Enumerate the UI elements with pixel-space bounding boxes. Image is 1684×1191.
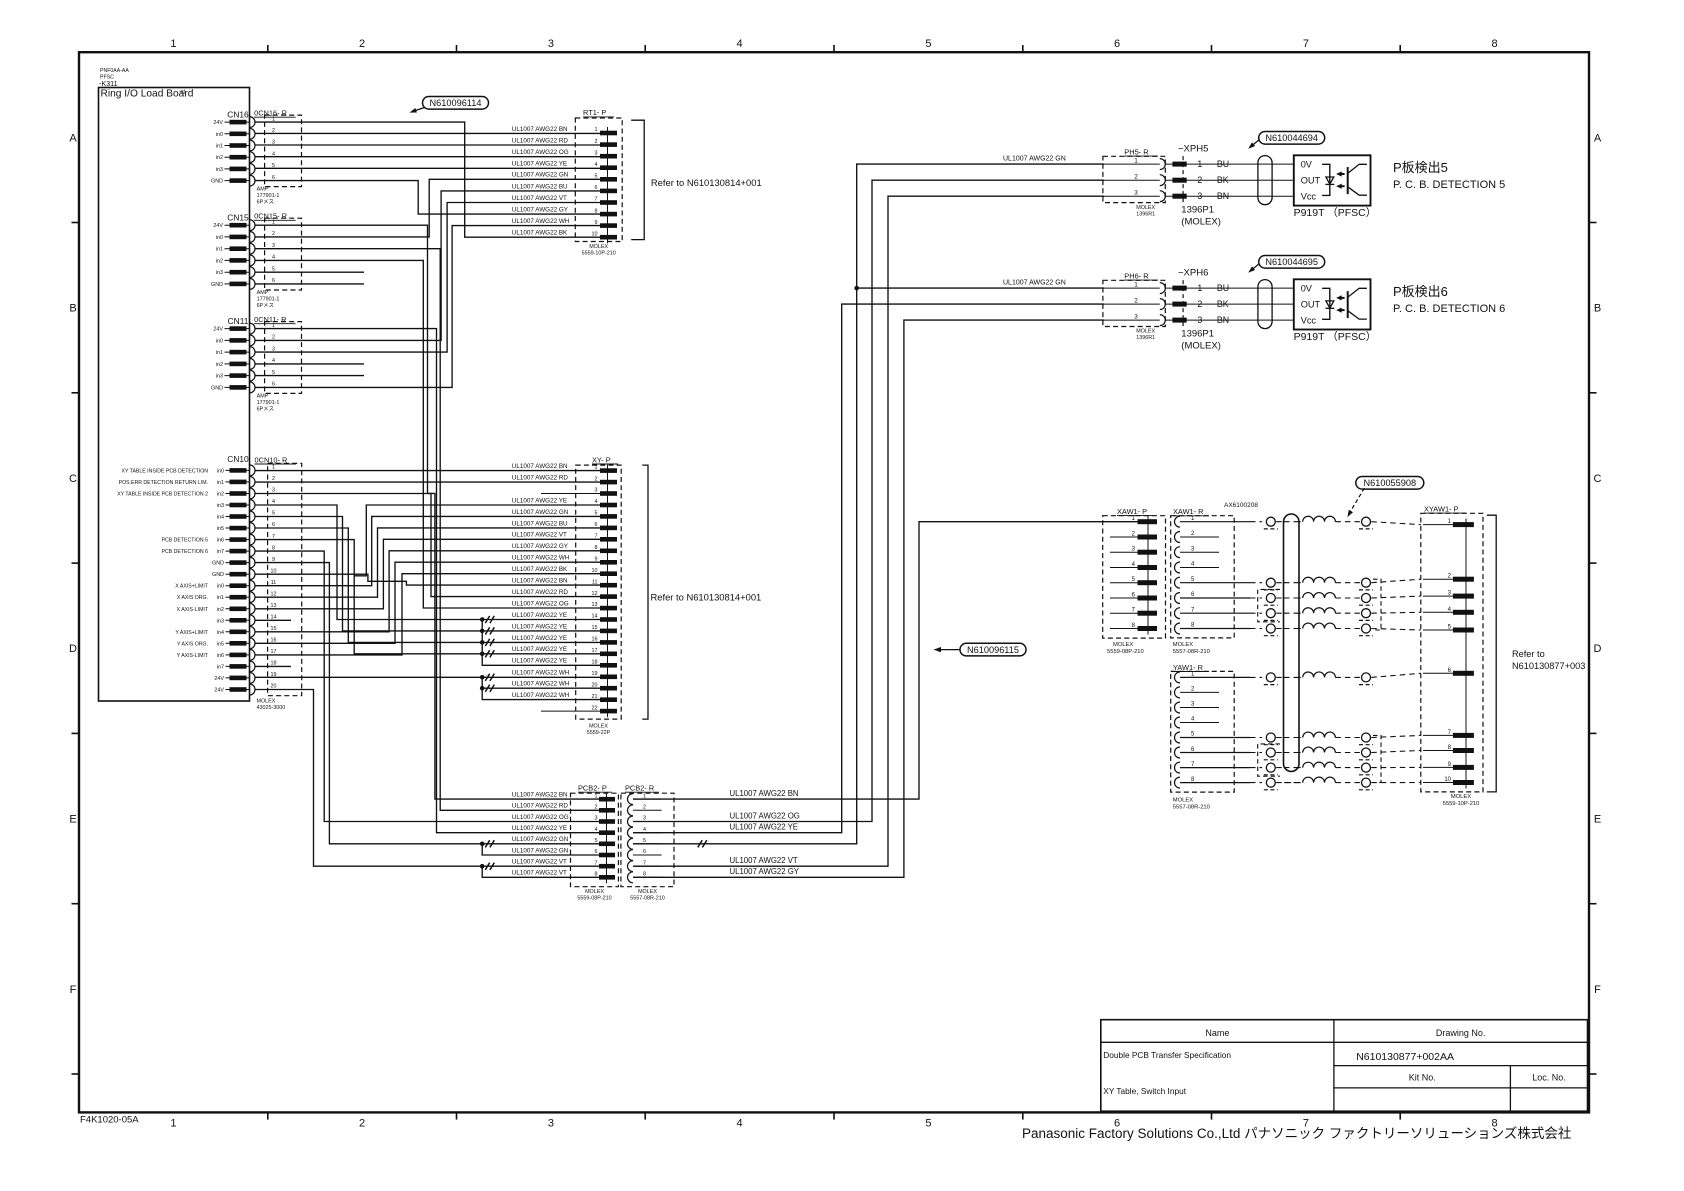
svg-text:A: A	[69, 132, 77, 144]
svg-text:2: 2	[1197, 175, 1202, 185]
svg-text:0CN15- R: 0CN15- R	[254, 212, 287, 221]
wire PCB2-R pin5 to PH5 pin1 24V	[633, 164, 1104, 844]
svg-text:8: 8	[272, 545, 275, 551]
svg-text:6Pメス: 6Pメス	[257, 405, 274, 412]
connector XAW1- R	[1171, 507, 1235, 655]
svg-text:in1: in1	[216, 350, 223, 356]
svg-text:5559-08P-210: 5559-08P-210	[577, 896, 611, 902]
wire CN15-1 to PCB2-P pin1	[255, 225, 599, 799]
svg-text:177901-1: 177901-1	[257, 400, 280, 406]
label P.C.B. DETECTION 5	[1393, 160, 1505, 191]
svg-text:XY Table, Switch Input: XY Table, Switch Input	[1103, 1086, 1186, 1096]
svg-text:in0: in0	[216, 235, 223, 241]
svg-text:MOLEX: MOLEX	[257, 699, 276, 705]
svg-text:8: 8	[595, 208, 598, 214]
slash XY-P pin19	[485, 674, 494, 681]
svg-text:MOLEX: MOLEX	[585, 889, 604, 895]
svg-text:P919T （PFSC）: P919T （PFSC）	[1294, 207, 1377, 219]
svg-text:15: 15	[271, 626, 277, 632]
junction dot XY-P pin17	[480, 652, 485, 657]
svg-text:UL1007 AWG22 BN: UL1007 AWG22 BN	[730, 789, 799, 798]
svg-text:5559-22P: 5559-22P	[587, 730, 611, 736]
wire CN10-20 to PCB2-P pin7	[255, 690, 599, 867]
svg-text:UL1007 AWG22 WH: UL1007 AWG22 WH	[512, 218, 570, 225]
svg-text:PH5- R: PH5- R	[1124, 148, 1148, 157]
svg-text:2: 2	[595, 805, 598, 811]
junction dot XY-P pin15	[480, 629, 485, 634]
svg-text:P板検出5: P板検出5	[1393, 160, 1448, 175]
svg-text:UL1007 AWG22 GN: UL1007 AWG22 GN	[512, 172, 569, 179]
label AX6100208	[1224, 502, 1258, 509]
svg-text:7: 7	[272, 534, 275, 540]
svg-text:9: 9	[595, 220, 598, 226]
svg-text:8: 8	[643, 872, 646, 878]
svg-text:in7: in7	[217, 664, 224, 670]
svg-text:-K311: -K311	[99, 79, 118, 88]
twisted-pair wire row 3 to XYAW1-P pin 3	[1180, 593, 1421, 606]
svg-text:6: 6	[1114, 38, 1120, 50]
svg-text:BK: BK	[1217, 175, 1229, 185]
svg-text:P. C. B. DETECTION 5: P. C. B. DETECTION 5	[1393, 179, 1505, 191]
svg-text:1: 1	[595, 465, 598, 471]
balloon N610055908	[1347, 477, 1423, 518]
svg-text:UL1007 AWG22 GY: UL1007 AWG22 GY	[512, 543, 569, 550]
svg-text:UL1007 AWG22 BK: UL1007 AWG22 BK	[512, 230, 568, 237]
svg-text:in0: in0	[217, 584, 224, 590]
svg-text:2: 2	[643, 805, 646, 811]
stub CN11-4	[255, 363, 364, 365]
junction dot PCB2-P pin7	[480, 864, 485, 869]
svg-text:1: 1	[1134, 281, 1138, 288]
svg-text:Refer to: Refer to	[1512, 649, 1545, 659]
svg-text:3: 3	[548, 1118, 554, 1130]
svg-text:UL1007 AWG22 VT: UL1007 AWG22 VT	[512, 532, 567, 539]
wire CN10-7 to XY-P pin17	[255, 540, 600, 654]
svg-text:in0: in0	[216, 338, 223, 344]
svg-text:UL1007 AWG22 RD: UL1007 AWG22 RD	[512, 589, 569, 596]
svg-text:UL1007 AWG22 VT: UL1007 AWG22 VT	[512, 859, 567, 866]
svg-text:17: 17	[271, 649, 277, 655]
slash XY-P pin15	[485, 627, 494, 634]
connector PH5-R	[1103, 148, 1165, 218]
connector PCB2-R	[621, 784, 674, 902]
svg-text:8: 8	[595, 872, 598, 878]
connector 0CN10- R	[250, 455, 302, 711]
svg-text:in2: in2	[217, 607, 224, 613]
wire CN16-4 to RT1-P pin3	[255, 156, 600, 158]
svg-text:C: C	[1594, 473, 1602, 485]
svg-text:UL1007 AWG22 VT: UL1007 AWG22 VT	[512, 195, 567, 202]
svg-text:GND: GND	[211, 282, 223, 288]
wire CN10-5 to XY-P pin15	[255, 517, 600, 631]
stub XY-P pin 22	[541, 710, 600, 712]
junction dot XY-P pin14	[480, 617, 485, 622]
connector XAW1-P	[1103, 507, 1166, 655]
svg-text:UL1007 AWG22 YE: UL1007 AWG22 YE	[512, 623, 567, 630]
svg-text:UL1007 AWG22 YE: UL1007 AWG22 YE	[512, 497, 567, 504]
svg-text:−XPH6: −XPH6	[1178, 268, 1208, 279]
connector CN15 board pins	[211, 213, 249, 288]
svg-text:177901-1: 177901-1	[257, 296, 280, 302]
wire labels XY-P	[512, 463, 570, 699]
svg-text:UL1007 AWG22 RD: UL1007 AWG22 RD	[512, 137, 569, 144]
svg-text:Y AXIS+LIMIT: Y AXIS+LIMIT	[175, 630, 208, 636]
wire CN11-6 to RT1-P pin9	[255, 226, 600, 388]
svg-text:16: 16	[592, 637, 598, 643]
svg-text:2: 2	[1197, 299, 1202, 309]
wire CN10-10 to XY-P pin11	[255, 574, 600, 585]
svg-text:6Pメス: 6Pメス	[257, 199, 274, 206]
wire CN10-11 to XY-P pin5	[255, 516, 600, 585]
svg-text:7: 7	[1303, 38, 1309, 50]
stub XY-P pin 3	[541, 493, 600, 495]
svg-text:4: 4	[643, 827, 646, 833]
wire CN10-8 to PCB2-P pin3	[255, 551, 599, 821]
slash XY-P pin17	[485, 650, 494, 657]
svg-text:Y AXIS ORG.: Y AXIS ORG.	[177, 641, 208, 647]
svg-text:5557-08R-210: 5557-08R-210	[1173, 805, 1210, 811]
wire CN11-2 to RT1-P pin6	[255, 191, 600, 341]
svg-text:Loc. No.: Loc. No.	[1532, 1073, 1566, 1083]
svg-text:X AXIS+LIMIT: X AXIS+LIMIT	[175, 584, 209, 590]
svg-text:in2: in2	[217, 492, 224, 498]
svg-text:XAW1- R: XAW1- R	[1173, 507, 1204, 516]
connector PH6-R	[1103, 272, 1165, 342]
connector CN11 board pins	[211, 316, 249, 391]
svg-text:−XPH5: −XPH5	[1178, 144, 1208, 155]
svg-text:P. C. B. DETECTION 6: P. C. B. DETECTION 6	[1393, 303, 1505, 315]
svg-text:UL1007 AWG22 YE: UL1007 AWG22 YE	[512, 161, 567, 168]
wire CN10-1 to XY-P pin1	[255, 470, 600, 472]
wire CN10-6 to XY-P pin16	[255, 528, 600, 642]
svg-text:10: 10	[1444, 777, 1451, 783]
jumper WH to XY-P pin21	[482, 677, 600, 699]
connector RT1-P	[575, 108, 622, 256]
svg-text:2: 2	[272, 476, 275, 482]
svg-text:Drawing No.: Drawing No.	[1436, 1028, 1486, 1038]
svg-text:1: 1	[1134, 157, 1138, 164]
slash PCB2-P pin5	[485, 840, 494, 847]
svg-text:6: 6	[272, 175, 275, 181]
svg-text:2: 2	[595, 476, 598, 482]
svg-text:9: 9	[272, 557, 275, 563]
svg-text:UL1007 AWG22 VT: UL1007 AWG22 VT	[512, 870, 567, 877]
svg-text:13: 13	[271, 603, 277, 609]
svg-text:UL1007 AWG22 BN: UL1007 AWG22 BN	[512, 792, 568, 799]
cable bundle oval	[1284, 514, 1300, 772]
svg-text:4: 4	[737, 38, 743, 50]
svg-text:8: 8	[595, 545, 598, 551]
svg-text:Double PCB Transfer Specificat: Double PCB Transfer Specification	[1103, 1050, 1231, 1060]
svg-text:F: F	[70, 984, 77, 996]
svg-text:PCB2- P: PCB2- P	[578, 784, 607, 793]
svg-text:POS.ERR DETECTION RETURN LIM.: POS.ERR DETECTION RETURN LIM.	[119, 480, 208, 486]
svg-text:in4: in4	[217, 630, 224, 636]
svg-text:UL1007 AWG22 OG: UL1007 AWG22 OG	[512, 600, 569, 607]
svg-text:6Pメス: 6Pメス	[257, 302, 274, 309]
svg-text:1: 1	[272, 323, 275, 329]
svg-text:4: 4	[595, 827, 598, 833]
svg-text:19: 19	[592, 671, 598, 677]
svg-text:4: 4	[737, 1118, 743, 1130]
balloon N610044694	[1248, 132, 1325, 149]
svg-text:5559-08P-210: 5559-08P-210	[1107, 649, 1144, 655]
svg-text:UL1007 AWG22 BN: UL1007 AWG22 BN	[512, 578, 568, 585]
svg-text:in3: in3	[216, 270, 223, 276]
svg-text:2: 2	[1134, 173, 1138, 180]
wire PCB2-R pin7 to PH5 pin3	[633, 196, 1104, 866]
title block	[1101, 1020, 1588, 1111]
svg-text:in5: in5	[217, 641, 224, 647]
wire label PH5 GN	[1003, 156, 1066, 163]
svg-text:UL1007 AWG22 OG: UL1007 AWG22 OG	[512, 814, 569, 821]
svg-text:4: 4	[272, 255, 275, 261]
wire CN10-17 to XY-P pin10	[255, 574, 600, 655]
svg-text:3: 3	[272, 243, 275, 249]
svg-text:24V: 24V	[213, 120, 223, 126]
svg-text:UL1007 AWG22 OG: UL1007 AWG22 OG	[512, 149, 569, 156]
wire CN10-12 to XY-P pin6	[255, 528, 600, 597]
svg-text:D: D	[69, 643, 77, 655]
svg-text:BU: BU	[1217, 159, 1229, 169]
svg-text:5: 5	[272, 370, 275, 376]
connector XYAW1-P	[1421, 504, 1483, 807]
twisted-pair wire row 6 to XYAW1-P pin 6	[1180, 672, 1421, 685]
svg-text:UL1007 AWG22 YE: UL1007 AWG22 YE	[512, 612, 567, 619]
svg-text:OUT: OUT	[1301, 299, 1321, 309]
svg-text:in3: in3	[217, 618, 224, 624]
svg-text:3: 3	[1134, 189, 1138, 196]
stub CN15-5	[255, 271, 364, 273]
svg-text:0CN11- R: 0CN11- R	[254, 315, 286, 324]
svg-text:MOLEX: MOLEX	[1451, 794, 1471, 800]
svg-text:GND: GND	[211, 385, 223, 391]
wire CN16-2 to RT1-P pin1	[255, 132, 600, 134]
svg-text:GND: GND	[212, 572, 224, 578]
svg-text:AMP: AMP	[257, 187, 269, 193]
drawing number F4K1020-05A	[80, 1115, 139, 1126]
stub CN10-18	[255, 665, 291, 667]
svg-text:12: 12	[271, 591, 277, 597]
connector -XPH5	[1165, 144, 1294, 228]
wire CN16-5 to RT1-P pin4	[255, 167, 600, 169]
junction dot 24V net PH6	[854, 286, 859, 291]
svg-text:2: 2	[272, 335, 275, 341]
svg-text:X AXIS-LIMIT: X AXIS-LIMIT	[177, 607, 209, 613]
svg-text:in4: in4	[217, 515, 224, 521]
wire CN16-3 to RT1-P pin2	[255, 144, 600, 146]
svg-text:5559-10P-210: 5559-10P-210	[582, 251, 616, 257]
svg-text:24V: 24V	[213, 223, 223, 229]
svg-text:3: 3	[595, 816, 598, 822]
svg-text:14: 14	[271, 615, 277, 621]
svg-text:MOLEX: MOLEX	[589, 724, 608, 730]
svg-text:2: 2	[1134, 297, 1138, 304]
svg-text:Kit No.: Kit No.	[1409, 1073, 1436, 1083]
photo-interrupter U5 P919T	[1294, 155, 1377, 219]
svg-text:UL1007 AWG22 WH: UL1007 AWG22 WH	[512, 670, 570, 677]
jumper GN to PCB2-P pin6	[482, 844, 599, 855]
svg-text:0V: 0V	[1301, 159, 1313, 169]
svg-text:XY TABLE INSIDE PCB DETECTION: XY TABLE INSIDE PCB DETECTION	[122, 468, 209, 474]
slash XY-P pin16	[485, 639, 494, 646]
svg-text:6: 6	[643, 849, 646, 855]
svg-text:6: 6	[272, 522, 275, 528]
svg-text:1: 1	[272, 219, 275, 225]
svg-text:UL1007 AWG22 YE: UL1007 AWG22 YE	[512, 825, 567, 832]
wire CN11-1 to PCB2-P pin4	[255, 329, 599, 833]
balloon N610096114	[410, 97, 489, 113]
svg-text:UL1007 AWG22 GY: UL1007 AWG22 GY	[512, 207, 569, 214]
svg-text:20: 20	[592, 682, 598, 688]
wire branch PH6 pin1 24V	[857, 287, 1104, 289]
svg-text:N610055908: N610055908	[1363, 478, 1416, 488]
svg-text:E: E	[1594, 814, 1601, 826]
svg-text:1: 1	[170, 1118, 176, 1130]
svg-text:UL1007 AWG22 YE: UL1007 AWG22 YE	[512, 646, 567, 653]
svg-text:UL1007 AWG22 BN: UL1007 AWG22 BN	[512, 463, 568, 470]
svg-text:UL1007 AWG22 VT: UL1007 AWG22 VT	[730, 856, 798, 865]
svg-text:22: 22	[592, 705, 598, 711]
svg-text:UL1007 AWG22 YE: UL1007 AWG22 YE	[512, 658, 567, 665]
slash PCB2-P pin7	[485, 863, 494, 870]
balloon N610044695	[1248, 256, 1325, 273]
svg-text:UL1007 AWG22 OG: UL1007 AWG22 OG	[730, 811, 800, 820]
svg-text:UL1007 AWG22 YE: UL1007 AWG22 YE	[730, 823, 798, 832]
twisted-pair wire row 7 to XYAW1-P pin 7	[1180, 732, 1421, 745]
svg-text:6: 6	[595, 522, 598, 528]
svg-text:Refer to N610130814+001: Refer to N610130814+001	[651, 177, 762, 188]
svg-text:XY TABLE INSIDE PCB DETECTION: XY TABLE INSIDE PCB DETECTION 2	[117, 492, 208, 498]
svg-text:6: 6	[272, 382, 275, 388]
svg-text:24V: 24V	[214, 688, 224, 694]
shield bracket XAW1 rows 6-7	[1258, 589, 1280, 621]
svg-text:#1: #1	[181, 90, 187, 96]
twisted-pair wire row 10 to XYAW1-P pin 10	[1180, 777, 1421, 790]
svg-text:UL1007 AWG22 RD: UL1007 AWG22 RD	[512, 475, 569, 482]
svg-text:N610096115: N610096115	[967, 645, 1019, 655]
svg-text:UL1007 AWG22 GN: UL1007 AWG22 GN	[1003, 280, 1066, 287]
svg-text:UL1007 AWG22 GN: UL1007 AWG22 GN	[512, 847, 569, 854]
svg-text:AX6100208: AX6100208	[1224, 502, 1258, 509]
svg-text:XYAW1- P: XYAW1- P	[1424, 504, 1459, 513]
svg-text:(MOLEX): (MOLEX)	[1181, 217, 1221, 228]
jumper VT to PCB2-P pin8	[482, 866, 599, 877]
svg-text:in2: in2	[216, 362, 223, 368]
wire CN15-2 to RT1-P pin5	[255, 179, 600, 237]
svg-text:0V: 0V	[1301, 283, 1313, 293]
svg-text:C: C	[69, 473, 77, 485]
svg-text:10: 10	[271, 568, 277, 574]
stub CN10-14	[255, 619, 291, 621]
svg-text:UL1007 AWG22 BN: UL1007 AWG22 BN	[512, 126, 568, 133]
svg-text:UL1007 AWG22 BK: UL1007 AWG22 BK	[512, 566, 568, 573]
svg-text:3: 3	[272, 488, 275, 494]
wires through sleeve XPH6	[1258, 288, 1272, 320]
slash XY-P pin14	[485, 616, 494, 623]
svg-text:1396P1: 1396P1	[1181, 329, 1214, 340]
svg-text:in3: in3	[216, 167, 223, 173]
label P.C.B. DETECTION 6	[1393, 284, 1505, 315]
svg-text:18: 18	[271, 661, 277, 667]
svg-text:OUT: OUT	[1301, 175, 1321, 185]
wire CN16-1 to RT1-P pin10	[255, 122, 600, 237]
svg-text:GND: GND	[212, 561, 224, 567]
svg-text:4: 4	[595, 162, 598, 168]
wire CN10-13 to XY-P pin7	[255, 539, 600, 609]
wire CN10-15 to XY-P pin8	[255, 551, 600, 632]
svg-text:1396P1: 1396P1	[1181, 205, 1214, 216]
svg-text:4: 4	[595, 499, 598, 505]
photo-interrupter U6 P919T	[1294, 279, 1377, 343]
svg-text:11: 11	[271, 580, 277, 586]
svg-text:5557-08R-210: 5557-08R-210	[1173, 649, 1210, 655]
twisted-pair wire row 2 to XYAW1-P pin 2	[1180, 577, 1421, 590]
svg-text:6: 6	[272, 278, 275, 284]
svg-text:2: 2	[595, 139, 598, 145]
svg-text:4: 4	[272, 499, 275, 505]
svg-text:6: 6	[595, 185, 598, 191]
connector CN16 board pins	[211, 110, 249, 185]
wires through cable oval	[1284, 522, 1299, 783]
svg-text:in5: in5	[217, 526, 224, 532]
svg-text:F4K1020-05A: F4K1020-05A	[80, 1115, 139, 1126]
twisted-pair wire row 1 to XYAW1-P pin 1	[1180, 516, 1421, 529]
wire CN10-9 to PCB2-P pin5	[255, 563, 599, 844]
svg-text:PCB DETECTION 5: PCB DETECTION 5	[162, 538, 209, 544]
shield bracket YAW1 rows 6-7	[1258, 744, 1280, 776]
svg-text:2: 2	[272, 231, 275, 237]
svg-text:UL1007 AWG22 YE: UL1007 AWG22 YE	[512, 635, 567, 642]
jumper WH branch XY-P pin20	[482, 687, 600, 689]
svg-text:1: 1	[272, 465, 275, 471]
svg-text:5: 5	[595, 174, 598, 180]
svg-text:UL1007 AWG22 GN: UL1007 AWG22 GN	[512, 836, 569, 843]
svg-text:PCB2- R: PCB2- R	[625, 784, 654, 793]
svg-text:7: 7	[643, 860, 646, 866]
wire CN10-4 to XY-P pin14	[255, 505, 600, 620]
svg-text:PNF0AA-AA: PNF0AA-AA	[100, 68, 129, 74]
svg-text:5: 5	[595, 838, 598, 844]
svg-text:5559-10P-210: 5559-10P-210	[1443, 801, 1480, 807]
svg-text:7: 7	[595, 197, 598, 203]
cable sleeve XPH5	[1258, 156, 1272, 205]
svg-text:UL1007 AWG22 GY: UL1007 AWG22 GY	[730, 867, 800, 876]
svg-text:in2: in2	[216, 155, 223, 161]
svg-text:Refer to N610130814+001: Refer to N610130814+001	[651, 592, 762, 603]
wire PCB2-R pin1 to XAW1-P pin1	[633, 522, 1138, 799]
twisted-pair wire row 8 to XYAW1-P pin 8	[1180, 747, 1421, 760]
connector YAW1- R	[1171, 663, 1235, 811]
svg-text:177901-1: 177901-1	[257, 193, 280, 199]
svg-text:in3: in3	[216, 374, 223, 380]
wire label PH6 GN	[1003, 280, 1066, 287]
svg-text:24V: 24V	[214, 676, 224, 682]
svg-text:UL1007 AWG22 WH: UL1007 AWG22 WH	[512, 555, 570, 562]
svg-text:AMP: AMP	[257, 290, 269, 296]
svg-text:UL1007 AWG22 GN: UL1007 AWG22 GN	[1003, 156, 1066, 163]
svg-text:Panasonic Factory Solutions Co: Panasonic Factory Solutions Co.,Ltd パナソニ…	[1022, 1126, 1571, 1141]
svg-text:P919T （PFSC）: P919T （PFSC）	[1294, 331, 1377, 343]
svg-text:MOLEX: MOLEX	[1173, 642, 1193, 648]
svg-text:5: 5	[272, 511, 275, 517]
svg-text:CN11: CN11	[228, 316, 249, 326]
svg-text:in0: in0	[217, 468, 224, 474]
svg-text:1: 1	[170, 38, 176, 50]
svg-text:in7: in7	[217, 549, 224, 555]
svg-text:43025-3000: 43025-3000	[257, 705, 286, 711]
svg-text:Name: Name	[1205, 1028, 1229, 1038]
